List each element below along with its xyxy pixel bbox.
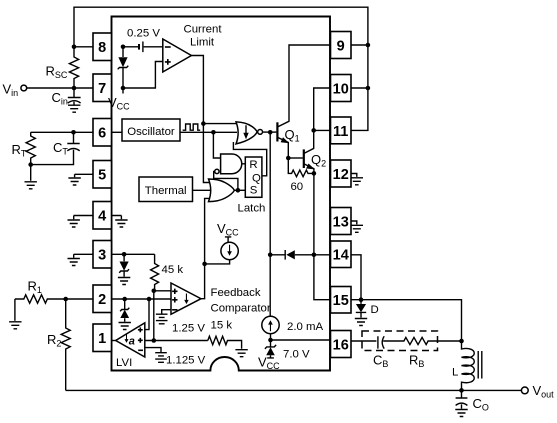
svg-text:Comparator: Comparator xyxy=(211,303,271,315)
svg-text:CB: CB xyxy=(373,353,388,370)
svg-text:7: 7 xyxy=(98,81,106,97)
svg-text:Q1: Q1 xyxy=(285,127,300,144)
svg-text:10: 10 xyxy=(333,82,349,98)
svg-text:3: 3 xyxy=(98,248,106,264)
svg-text:Oscillator: Oscillator xyxy=(127,126,175,138)
svg-text:VCC: VCC xyxy=(217,221,239,238)
svg-text:Thermal: Thermal xyxy=(145,185,187,197)
svg-text:11: 11 xyxy=(333,124,348,140)
svg-text:15 k: 15 k xyxy=(211,320,233,332)
svg-text:1.125 V: 1.125 V xyxy=(166,355,206,367)
svg-text:2.0 mA: 2.0 mA xyxy=(287,321,323,333)
svg-text:Latch: Latch xyxy=(238,203,266,215)
svg-text:14: 14 xyxy=(333,248,349,264)
svg-text:60: 60 xyxy=(290,181,303,193)
svg-text:6: 6 xyxy=(98,126,106,142)
svg-text:5: 5 xyxy=(98,168,106,184)
svg-text:15: 15 xyxy=(333,293,349,309)
svg-text:CT: CT xyxy=(53,140,68,157)
svg-text:Cin: Cin xyxy=(52,90,68,107)
svg-text:7.0 V: 7.0 V xyxy=(283,349,310,361)
svg-text:Q2: Q2 xyxy=(311,152,326,169)
svg-text:Feedback: Feedback xyxy=(211,287,261,299)
svg-text:S: S xyxy=(250,184,258,196)
svg-text:45 k: 45 k xyxy=(162,264,184,276)
svg-text:LVI: LVI xyxy=(116,357,132,369)
svg-text:Limit: Limit xyxy=(190,37,215,49)
svg-text:CO: CO xyxy=(473,396,489,413)
svg-text:9: 9 xyxy=(337,39,345,55)
svg-text:Vout: Vout xyxy=(533,383,555,400)
svg-text:8: 8 xyxy=(98,40,106,56)
svg-text:1.25 V: 1.25 V xyxy=(172,323,205,335)
svg-text:Current: Current xyxy=(184,24,223,36)
svg-text:2: 2 xyxy=(98,292,106,308)
svg-text:4: 4 xyxy=(98,209,106,225)
svg-text:R1: R1 xyxy=(28,279,42,296)
svg-text:13: 13 xyxy=(333,215,349,231)
svg-text:VCC: VCC xyxy=(108,95,130,112)
svg-text:RT: RT xyxy=(12,142,27,159)
svg-text:L: L xyxy=(452,367,458,379)
svg-text:Vin: Vin xyxy=(3,82,19,99)
svg-text:0.25 V: 0.25 V xyxy=(127,28,160,40)
svg-text:1: 1 xyxy=(98,331,106,347)
svg-text:R: R xyxy=(249,159,257,171)
svg-text:RSC: RSC xyxy=(46,64,68,81)
svg-text:VCC: VCC xyxy=(258,355,280,372)
svg-text:16: 16 xyxy=(333,338,349,354)
svg-text:Q: Q xyxy=(252,173,261,185)
svg-text:D: D xyxy=(371,304,379,316)
svg-text:R2: R2 xyxy=(47,332,61,349)
svg-text:12: 12 xyxy=(333,167,349,183)
svg-text:RB: RB xyxy=(409,353,424,370)
svg-text:a: a xyxy=(129,336,135,348)
